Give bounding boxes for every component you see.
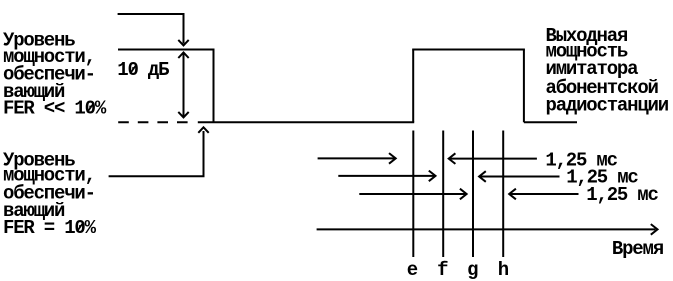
svg-text:f: f [437,259,448,281]
time axis arrow [317,224,658,235]
dimension arrow row 1 pointing left toward f, 1,25 ms [449,153,537,164]
wire: left pulse falling edge [213,50,215,123]
dimension arrow row 2 pointing right toward f [338,171,435,182]
dimension arrow row 2 pointing left toward g, 1,25 ms [479,171,559,182]
wire: right pulse high level [412,49,525,51]
svg-text:1,25 мс: 1,25 мс [586,184,658,206]
node f vertical reference line [442,131,444,258]
callout arrow to low level [109,127,209,176]
wire: right pulse falling edge [523,50,525,123]
dashed low level reference line [118,121,187,123]
wire: low level line after pulse [524,121,577,123]
svg-text:радиостанции: радиостанции [546,94,669,116]
dimension arrow row 1 pointing right toward e [318,153,396,164]
svg-text:h: h [498,259,509,281]
wire: right pulse rising edge [412,50,414,123]
wire: left pulse high level [118,49,215,51]
dimension arrow row 3 pointing right toward g [359,189,466,200]
label: lower power level text (FER = 10%) [3,149,97,239]
wire: low level line between pulses [198,121,414,123]
callout bracket to high level [118,14,189,45]
label: upper power level text (FER << 10%) [3,30,107,120]
svg-text:g: g [467,259,478,281]
value label 10 dB [117,59,169,81]
node h vertical reference line [502,131,504,258]
node g vertical reference line [472,131,474,258]
svg-text:FER = 10%: FER = 10% [3,217,97,239]
svg-text:10 дБ: 10 дБ [117,59,169,81]
node e vertical reference line [412,131,414,258]
label: output power of subscriber station simulator [546,25,669,117]
svg-text:Время: Время [612,238,664,260]
dimension arrow: 10 dB span [178,53,188,118]
svg-text:FER << 10%: FER << 10% [3,98,107,120]
svg-text:e: e [407,259,418,281]
dimension arrow row 3 pointing left toward h, 1,25 ms [509,189,578,200]
